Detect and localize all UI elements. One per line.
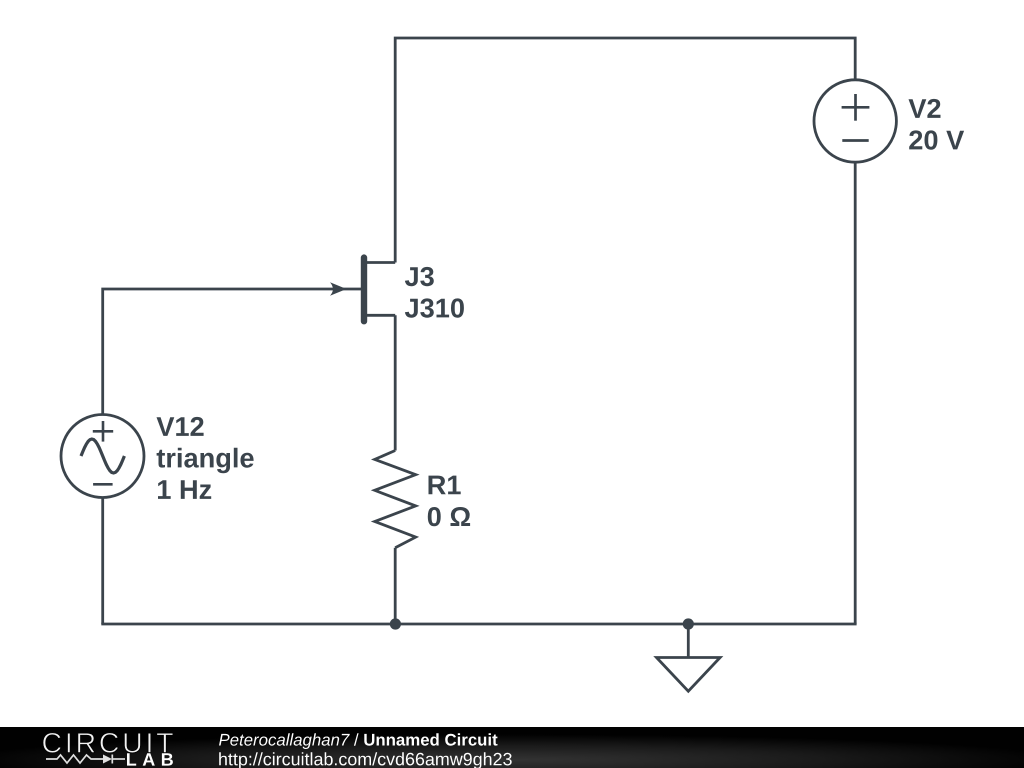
label R1 / 0 ohm [428,476,470,527]
voltage source V2 (DC) [814,80,896,162]
footer bar [0,727,1024,768]
resistor R1 [375,451,416,548]
wire bottom ground rail [101,623,856,626]
node junction dot at ground [683,618,694,629]
logo resistor-diode doodle [46,755,125,764]
wire R1 bottom to rail [394,548,397,624]
wire V12 bottom to rail [101,498,104,624]
transistor J3 (N-JFET) [330,258,395,322]
logo CIRCUIT [43,733,173,753]
logo LAB [127,753,173,765]
footer text line 1 [219,733,498,749]
wire top horizontal (drain to V2+) [395,38,855,263]
ground [657,624,721,691]
node junction dot at R1/rail [390,618,401,629]
footer text line 2 [219,752,512,768]
wire V12 top to gate [103,289,361,414]
label V2 / 20 V [909,99,965,150]
voltage source V12 (triangle) [61,415,144,498]
label J3 / J310 [405,267,464,318]
wire V2 bottom to ground rail [854,162,857,624]
wire source to R1 [394,315,397,450]
label V12 / triangle / 1 Hz [157,417,254,499]
